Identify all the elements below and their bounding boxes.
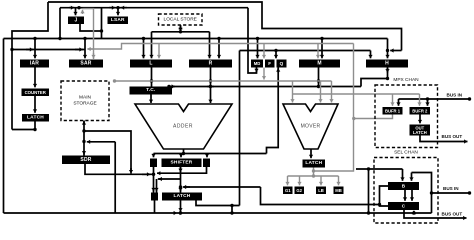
- wire latch box to bus: [154, 201, 156, 214]
- svg-text:SHIFTER: SHIFTER: [171, 159, 193, 165]
- wire into SHIFTER: [179, 154, 183, 158]
- wire B to C left: [403, 190, 407, 201]
- svg-text:B: B: [402, 184, 406, 189]
- wire net-A into H column: [390, 48, 401, 52]
- svg-text:SDR: SDR: [80, 157, 91, 163]
- svg-text:BUS OUT: BUS OUT: [442, 212, 463, 217]
- svg-text:MAIN: MAIN: [79, 94, 92, 100]
- wire line C arrow into SAR column: [75, 47, 83, 51]
- register MB: [334, 187, 344, 195]
- wire gray main run: [88, 44, 354, 50]
- wire bus up into C: [412, 211, 416, 214]
- wire SEL bus out: [404, 210, 467, 220]
- wire bottom bus: [4, 211, 432, 214]
- wire H column: [387, 68, 389, 79]
- wire SDR output: [85, 164, 155, 176]
- wire net-A top run: [48, 2, 402, 51]
- register G2: [295, 187, 305, 195]
- wire TC to adder: [149, 95, 153, 104]
- register SDR: [62, 156, 110, 165]
- wire line C: [12, 49, 85, 51]
- wire SEL bus in drop into B: [409, 173, 413, 181]
- main storage: [61, 81, 109, 121]
- wire shifter latch column: [179, 167, 182, 193]
- wire C-latch arrow: [183, 185, 190, 189]
- wire shifter down arrow: [178, 167, 182, 172]
- svg-text:R: R: [209, 61, 213, 67]
- wire line B main bus: [4, 37, 388, 40]
- svg-text:G2: G2: [296, 188, 302, 193]
- wire gray mover left input: [290, 81, 294, 103]
- svg-text:BUS OUT: BUS OUT: [442, 134, 463, 139]
- wire gray into G1: [285, 176, 289, 185]
- shifter right carry box: [203, 159, 210, 168]
- wire arrow down into SDR: [82, 151, 86, 155]
- out latch: [410, 125, 431, 136]
- wire R merge arrow: [207, 84, 214, 88]
- wire local store distribution: [152, 30, 210, 33]
- svg-text:SEL CHAN: SEL CHAN: [394, 149, 418, 155]
- svg-text:LOCAL STORE: LOCAL STORE: [164, 16, 197, 22]
- wire gray into G2: [297, 176, 301, 185]
- true complement TC: [130, 87, 173, 95]
- wire adder output: [183, 149, 185, 154]
- wire gray J to SAR: [83, 9, 94, 59]
- wire gray into BUFR2: [417, 94, 421, 106]
- wire x60 vertical: [59, 8, 61, 39]
- svg-text:STORAGE: STORAGE: [73, 101, 96, 107]
- svg-text:LB: LB: [318, 188, 324, 193]
- wire top2 to MD bottom: [248, 8, 257, 73]
- wire gray into MB: [336, 176, 340, 185]
- wire C to latch horizontal: [184, 186, 261, 188]
- wire latch link arrow: [159, 177, 163, 181]
- wire MS branch right: [84, 131, 131, 171]
- wire R to adder: [208, 68, 212, 104]
- wire gray into BUFR1: [390, 94, 394, 106]
- node line B / net-A junction at H column: [386, 49, 389, 52]
- wire left mid vertical: [114, 142, 116, 213]
- svg-text:F: F: [268, 61, 271, 66]
- wire drop into IAR: [33, 39, 37, 59]
- wire arrow into J junction: [69, 6, 74, 10]
- wire gray F output: [262, 68, 266, 80]
- svg-text:G1: G1: [285, 188, 291, 193]
- wire B to C right: [410, 190, 414, 201]
- wire staple into R: [207, 32, 211, 59]
- svg-text:LATCH: LATCH: [174, 193, 191, 199]
- mover ALU: [283, 104, 338, 149]
- wire MS branch onto SDR line: [129, 168, 133, 173]
- adder ALU: [135, 104, 232, 149]
- svg-text:LATCH: LATCH: [27, 115, 44, 121]
- wire latch bus merge arrows: [174, 211, 183, 215]
- svg-text:Q: Q: [280, 61, 284, 66]
- svg-text:ADDER: ADDER: [173, 124, 193, 130]
- wire drop into B: [400, 169, 404, 181]
- label MPX CHAN: [393, 77, 419, 83]
- wire latch L bottom stub: [34, 122, 36, 130]
- wire gray latch distribution: [313, 168, 315, 177]
- node latch bus junction: [179, 211, 182, 214]
- register H: [366, 60, 408, 68]
- wire BC bracket: [378, 186, 388, 206]
- latch left: [22, 114, 49, 122]
- wire second drop into latch box: [156, 179, 158, 193]
- wire arrow into LSAR junction right: [121, 6, 127, 10]
- svg-text:C: C: [402, 204, 406, 209]
- wire gray drop into M: [316, 44, 320, 59]
- register L: [130, 60, 172, 68]
- wire L to TC: [150, 68, 153, 87]
- wire M column: [317, 68, 320, 87]
- register IAR: [20, 60, 49, 68]
- wire arrow down into staple: [178, 27, 182, 31]
- label BUS OUT sel: [442, 212, 463, 217]
- wire line C arrow into IAR column: [26, 47, 33, 51]
- svg-text:L: L: [149, 61, 152, 67]
- buffer 2: [410, 107, 431, 115]
- wire SEL bus in loop: [412, 173, 432, 214]
- register LB: [316, 187, 326, 195]
- wire gray channel line: [293, 93, 420, 95]
- wire SEL B feed: [356, 167, 403, 170]
- wire BUFR2 to OUT LATCH: [418, 115, 422, 124]
- wire latch to bottom bus: [178, 201, 182, 212]
- wire left frame vertical: [3, 39, 5, 214]
- wire arrow up into Q bottom: [276, 68, 280, 72]
- latch left carry box: [151, 193, 158, 201]
- wire gray J up arrow: [80, 10, 84, 14]
- local store: [159, 14, 203, 25]
- register B: [388, 182, 419, 190]
- wire feedback tap to bottom bus: [231, 206, 233, 214]
- wire gray into SAR: [91, 53, 95, 58]
- svg-text:COUNTER: COUNTER: [25, 90, 47, 95]
- wire arrow up into MAIN STORAGE: [82, 121, 86, 124]
- svg-text:MPX CHAN: MPX CHAN: [393, 77, 419, 83]
- register J: [68, 17, 84, 25]
- wire mover output: [309, 149, 313, 158]
- wire MPX bus in: [399, 97, 470, 100]
- node SEL bus in terminal: [468, 191, 471, 194]
- wire arrow up into LOCAL STORE: [178, 26, 182, 30]
- node MPX bus in terminal: [468, 97, 471, 100]
- wire net-A left loop: [12, 2, 48, 50]
- wire local store column: [180, 25, 182, 32]
- register MD: [251, 60, 263, 68]
- svg-text:MB: MB: [335, 188, 342, 193]
- svg-text:T.C.: T.C.: [146, 87, 155, 93]
- wire MD bottom arrow: [254, 69, 258, 73]
- wire bus in to BUFR1: [396, 99, 400, 106]
- wire line B drop into H: [385, 39, 389, 59]
- register M: [299, 60, 340, 68]
- wire into LATCH: [178, 187, 182, 191]
- wire J output loop: [80, 24, 102, 31]
- label BUS IN mpx: [447, 93, 463, 98]
- wire top line 2: [60, 6, 248, 9]
- wire into shifter left box: [151, 154, 155, 158]
- wire gray arrow into SAR column: [87, 47, 93, 51]
- wire H bus start arrow: [169, 84, 175, 88]
- wire H bus: [167, 85, 361, 88]
- wire gray drop into L: [157, 44, 161, 59]
- wire shifter left column: [152, 167, 155, 193]
- mpx channel box: [375, 85, 438, 148]
- wire staple into L: [149, 32, 153, 59]
- wire shifter spread: [154, 152, 267, 155]
- svg-text:J: J: [75, 17, 78, 23]
- svg-text:BUFR 1: BUFR 1: [385, 109, 401, 114]
- wire H step: [361, 77, 389, 87]
- wire into shifter right box: [205, 154, 209, 158]
- label SEL CHAN: [394, 149, 418, 155]
- svg-text:MOVER: MOVER: [301, 124, 321, 130]
- wire second drop arrow: [154, 188, 158, 191]
- wire MS SDR column: [82, 121, 85, 156]
- wire Q column: [267, 68, 279, 154]
- wire drop into J: [73, 8, 77, 16]
- wire bus in to BUFR2: [425, 99, 429, 106]
- register SAR: [69, 60, 103, 68]
- wire latch output to feedback: [196, 201, 240, 208]
- latch bottom: [162, 193, 202, 201]
- wire latch link: [158, 178, 181, 180]
- register C: [388, 202, 419, 210]
- shifter: [162, 159, 202, 168]
- wire COUNTER to LATCH: [33, 96, 37, 113]
- wire drop into LSAR: [116, 8, 120, 16]
- wire gray into LB: [319, 176, 323, 185]
- node R column gray crossing: [209, 79, 212, 82]
- wire MPX bus out: [420, 136, 468, 144]
- wire gray drop into F: [262, 44, 266, 59]
- svg-text:H: H: [385, 61, 389, 67]
- sel channel box: [374, 158, 438, 224]
- wire latch feedback loop: [12, 128, 37, 131]
- svg-text:MD: MD: [254, 61, 261, 66]
- register R: [189, 60, 232, 68]
- buffer 1: [383, 107, 403, 115]
- wire drop into H left: [368, 51, 372, 59]
- wire gray mid bus: [113, 79, 332, 82]
- wire drop into MD: [255, 39, 259, 59]
- wire arrow into LSAR junction left: [109, 6, 115, 10]
- register F: [265, 60, 275, 68]
- wire right box link: [157, 167, 207, 175]
- wire C to latch run: [261, 187, 380, 205]
- label BUS IN sel: [443, 186, 459, 191]
- wire SDR line arrow: [142, 172, 150, 176]
- label BUS OUT mpx: [442, 134, 463, 139]
- svg-text:BUS IN: BUS IN: [443, 186, 459, 191]
- wire IAR to COUNTER: [33, 68, 37, 88]
- wire gray mover right input: [329, 81, 333, 103]
- svg-text:SAR: SAR: [80, 61, 91, 67]
- shifter left carry box: [150, 159, 157, 168]
- svg-text:IAR: IAR: [30, 61, 39, 67]
- svg-text:LSAR: LSAR: [111, 17, 125, 23]
- register Q: [277, 60, 287, 68]
- svg-text:LATCH: LATCH: [413, 130, 427, 135]
- wire gray distribution bar: [288, 174, 339, 177]
- wire gray BUFR1 out: [352, 115, 392, 121]
- wire x101 vertical: [100, 8, 103, 39]
- register G1: [283, 187, 293, 195]
- wire drop into L left: [141, 39, 145, 59]
- wire drop into SAR: [83, 39, 87, 59]
- wire return into MS column: [87, 140, 115, 144]
- mover latch: [303, 160, 326, 168]
- wire drop into M: [320, 39, 324, 59]
- svg-text:BUS IN: BUS IN: [447, 93, 463, 98]
- wire feedback top run: [240, 49, 371, 52]
- svg-text:LATCH: LATCH: [305, 160, 322, 166]
- svg-text:M: M: [317, 61, 321, 67]
- wire arrow into latch left box: [151, 188, 155, 191]
- wire drop into Q: [274, 51, 278, 59]
- svg-text:BUFR 2: BUFR 2: [412, 109, 428, 114]
- wire B reg feedback vertical: [239, 51, 241, 206]
- wire SEL bus in: [430, 191, 470, 194]
- register LSAR: [108, 17, 129, 25]
- wire gray mover mid input: [318, 81, 322, 103]
- wire left vertical x12 to latch loop: [10, 48, 13, 130]
- wire H output arrow: [385, 68, 389, 73]
- counter: [22, 89, 50, 97]
- wire drop into R right: [217, 39, 221, 59]
- wire right long vertical: [368, 169, 370, 213]
- wire gray right vertical: [312, 44, 354, 173]
